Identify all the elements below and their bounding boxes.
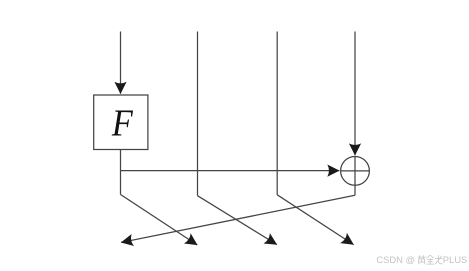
svg-text:CSDN @: CSDN @ [376, 254, 415, 265]
xor cross vertical [354, 157, 356, 186]
block F [94, 95, 148, 150]
watermark glyph long [435, 255, 443, 264]
wire xor output down [354, 185, 356, 195]
xor cross horizontal [341, 170, 370, 172]
watermark glyph jin [426, 255, 434, 264]
watermark CSDN @ [376, 254, 467, 265]
wire shift position 3 to 4 [277, 195, 353, 245]
wire input word 2 [197, 32, 199, 196]
wire xor output to output position 1 [121, 195, 355, 242]
wire input word 4 into xor [354, 32, 356, 156]
xor junction circle [341, 157, 370, 186]
wire shift position 2 to 3 [198, 196, 277, 245]
wire F output to xor [121, 170, 340, 172]
wire F output down [120, 150, 122, 195]
watermark glyph huang [418, 255, 426, 264]
svg-text:PLUS: PLUS [443, 254, 468, 265]
wire input word 1 into F [120, 32, 122, 94]
svg-text:F: F [111, 102, 134, 144]
wire shift position 1 to 2 [121, 195, 198, 246]
wire input word 3 [276, 32, 278, 195]
